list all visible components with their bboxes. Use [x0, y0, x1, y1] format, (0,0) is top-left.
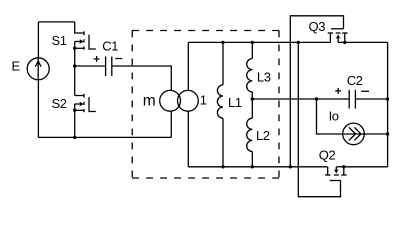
- gate plate: [330, 180, 341, 182]
- svg-text:1: 1: [200, 93, 207, 108]
- body arrow: [336, 34, 340, 38]
- junction C1 tap: [73, 64, 76, 67]
- gate plate: [89, 35, 96, 49]
- drain lead: [75, 22, 84, 33]
- plus sign C1: [94, 56, 100, 62]
- svg-text:C2: C2: [347, 73, 363, 88]
- body tie: [338, 41, 345, 43]
- inductor L2: [247, 118, 253, 167]
- junction mid node: [251, 97, 254, 100]
- source bar: [75, 47, 84, 49]
- svg-text:Q2: Q2: [319, 148, 336, 163]
- svg-text:E: E: [12, 59, 21, 74]
- junction L1 top: [221, 41, 224, 44]
- wire right vertical rail: [387, 42, 389, 166]
- junction L2 bottom: [251, 165, 254, 168]
- body arrow: [75, 103, 80, 105]
- channel cap A: [325, 174, 330, 176]
- channel segment 3: [83, 109, 85, 112]
- wire secondary bottom: [187, 111, 189, 166]
- right post: [343, 167, 345, 175]
- switch S1 (MOSFET): [75, 22, 96, 50]
- body wire: [74, 104, 76, 110]
- channel cap B: [336, 32, 341, 34]
- MOSFET Q2: [325, 167, 347, 181]
- channel segment 2: [83, 102, 85, 105]
- svg-text:Q3: Q3: [309, 19, 326, 34]
- wire left rail upper (to E source): [37, 22, 39, 58]
- junction S2 source: [73, 109, 76, 112]
- voltage source E: [27, 58, 49, 80]
- junction C2 right: [386, 97, 389, 100]
- bottom rail: [188, 166, 327, 168]
- junction S1 source: [73, 47, 76, 50]
- channel cap B: [334, 174, 339, 176]
- minus sign C2: [361, 90, 369, 92]
- wire left rail lower: [37, 80, 39, 138]
- svg-text:L3: L3: [257, 69, 271, 84]
- body wire: [74, 42, 76, 49]
- junction Q3 source: [343, 41, 346, 44]
- transformer primary winding: [160, 90, 181, 111]
- top rail: [188, 41, 330, 43]
- left post (drain lead): [327, 167, 329, 175]
- wire Q3 gate loop: [290, 16, 343, 167]
- wire Io branch: [317, 99, 343, 134]
- body tie: [336, 166, 344, 168]
- capacitor C1: [105, 57, 107, 77]
- drain lead: [75, 95, 84, 97]
- MOSFET Q3: [328, 29, 348, 43]
- channel segment 1: [83, 94, 85, 98]
- junction Io right: [386, 132, 389, 135]
- wire C1 to transformer: [112, 66, 172, 90]
- junction bottom-left: [73, 136, 76, 139]
- wire Q3 to right corner: [345, 41, 388, 43]
- svg-text:Io: Io: [329, 109, 339, 124]
- junction Q2 gate to top rail: [297, 41, 300, 44]
- switch S2 (MOSFET): [75, 94, 96, 112]
- wire C2 right: [355, 98, 387, 100]
- body arrow: [334, 170, 338, 174]
- wire S2 source down: [74, 110, 76, 137]
- wire to C1: [75, 65, 106, 67]
- capacitor C2: [348, 90, 350, 109]
- wire S1 source to S2 drain: [74, 48, 76, 95]
- svg-text:L2: L2: [256, 128, 270, 143]
- channel cap C: [342, 32, 347, 34]
- minus sign C1: [115, 58, 122, 60]
- wire top-left rail: [38, 21, 74, 23]
- plus sign C2: [335, 88, 341, 94]
- svg-text:S2: S2: [52, 96, 67, 111]
- svg-text:m: m: [143, 92, 156, 109]
- inductor L1: [217, 42, 223, 166]
- channel segment 3: [83, 46, 85, 49]
- junction C2 feed node: [315, 97, 318, 100]
- wire bottom-left: [38, 136, 171, 138]
- body arrow: [75, 41, 80, 43]
- junction L3 top: [251, 41, 254, 44]
- wire secondary top: [187, 42, 189, 90]
- svg-text:C1: C1: [102, 38, 118, 53]
- channel segment 1: [83, 31, 85, 35]
- left post: [329, 33, 331, 42]
- channel cap C: [341, 174, 346, 176]
- channel segment 2: [83, 39, 85, 42]
- gate plate: [89, 97, 96, 111]
- junction Q3 gate to bottom rail: [289, 165, 292, 168]
- svg-text:L1: L1: [228, 95, 242, 110]
- dashed converter box: [132, 31, 279, 179]
- wire mid node to C2: [252, 98, 349, 100]
- source bar: [75, 109, 84, 111]
- gate plate: [331, 28, 344, 30]
- junction L1 bottom: [221, 165, 224, 168]
- current source Io: [343, 123, 365, 145]
- wire Io right: [364, 133, 387, 135]
- wire Q2 gate net: [298, 42, 340, 196]
- transformer secondary winding: [178, 90, 199, 111]
- inductor L3: [247, 42, 253, 118]
- wire Q2 to right corner: [344, 166, 388, 168]
- svg-text:S1: S1: [52, 33, 67, 48]
- right post: [344, 33, 346, 42]
- wire primary bottom: [170, 111, 172, 137]
- channel cap A: [328, 32, 333, 34]
- junction Q2 source: [342, 165, 345, 168]
